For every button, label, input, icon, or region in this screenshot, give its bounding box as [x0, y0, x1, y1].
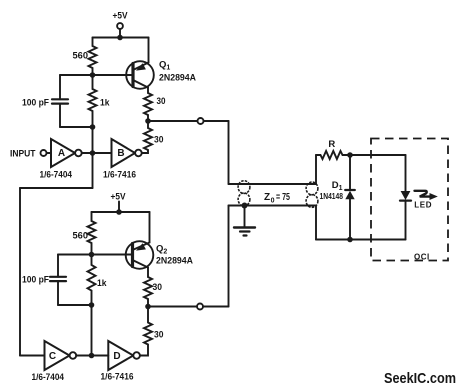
svg-text:Q2: Q2: [156, 244, 167, 256]
svg-text:0: 0: [271, 197, 275, 204]
svg-text:LED: LED: [414, 201, 432, 210]
svg-text:2N2894A: 2N2894A: [159, 73, 196, 84]
svg-text:1k: 1k: [97, 278, 107, 289]
svg-text:560: 560: [73, 51, 89, 62]
svg-text:C: C: [49, 351, 56, 362]
svg-text:Q1: Q1: [159, 60, 170, 72]
svg-text:A: A: [58, 148, 65, 159]
svg-text:OCI: OCI: [414, 253, 430, 262]
svg-text:SeekIC.com: SeekIC.com: [384, 370, 456, 387]
svg-text:100 pF: 100 pF: [22, 98, 49, 109]
svg-text:1/6-7404: 1/6-7404: [32, 372, 65, 383]
svg-text:100 pF: 100 pF: [22, 275, 49, 286]
svg-text:30: 30: [154, 134, 164, 145]
svg-text:Z: Z: [264, 192, 270, 203]
svg-text:30: 30: [157, 96, 166, 107]
svg-text:+5V: +5V: [113, 11, 129, 22]
svg-text:B: B: [117, 148, 124, 159]
svg-text:1/6-7416: 1/6-7416: [103, 170, 136, 181]
svg-text:1/6-7404: 1/6-7404: [40, 170, 73, 181]
svg-text:560: 560: [73, 231, 89, 242]
svg-text:INPUT: INPUT: [10, 149, 36, 160]
svg-text:1/6-7416: 1/6-7416: [101, 372, 134, 383]
svg-text:+5V: +5V: [111, 192, 127, 203]
svg-text:1N4148: 1N4148: [320, 191, 344, 201]
svg-text:30: 30: [154, 330, 164, 341]
svg-text:D: D: [113, 351, 120, 362]
svg-text:2N2894A: 2N2894A: [156, 256, 193, 267]
svg-text:1k: 1k: [100, 98, 110, 109]
svg-text:R: R: [328, 139, 335, 150]
svg-text:30: 30: [153, 282, 163, 293]
svg-text:= 75: = 75: [276, 192, 290, 203]
